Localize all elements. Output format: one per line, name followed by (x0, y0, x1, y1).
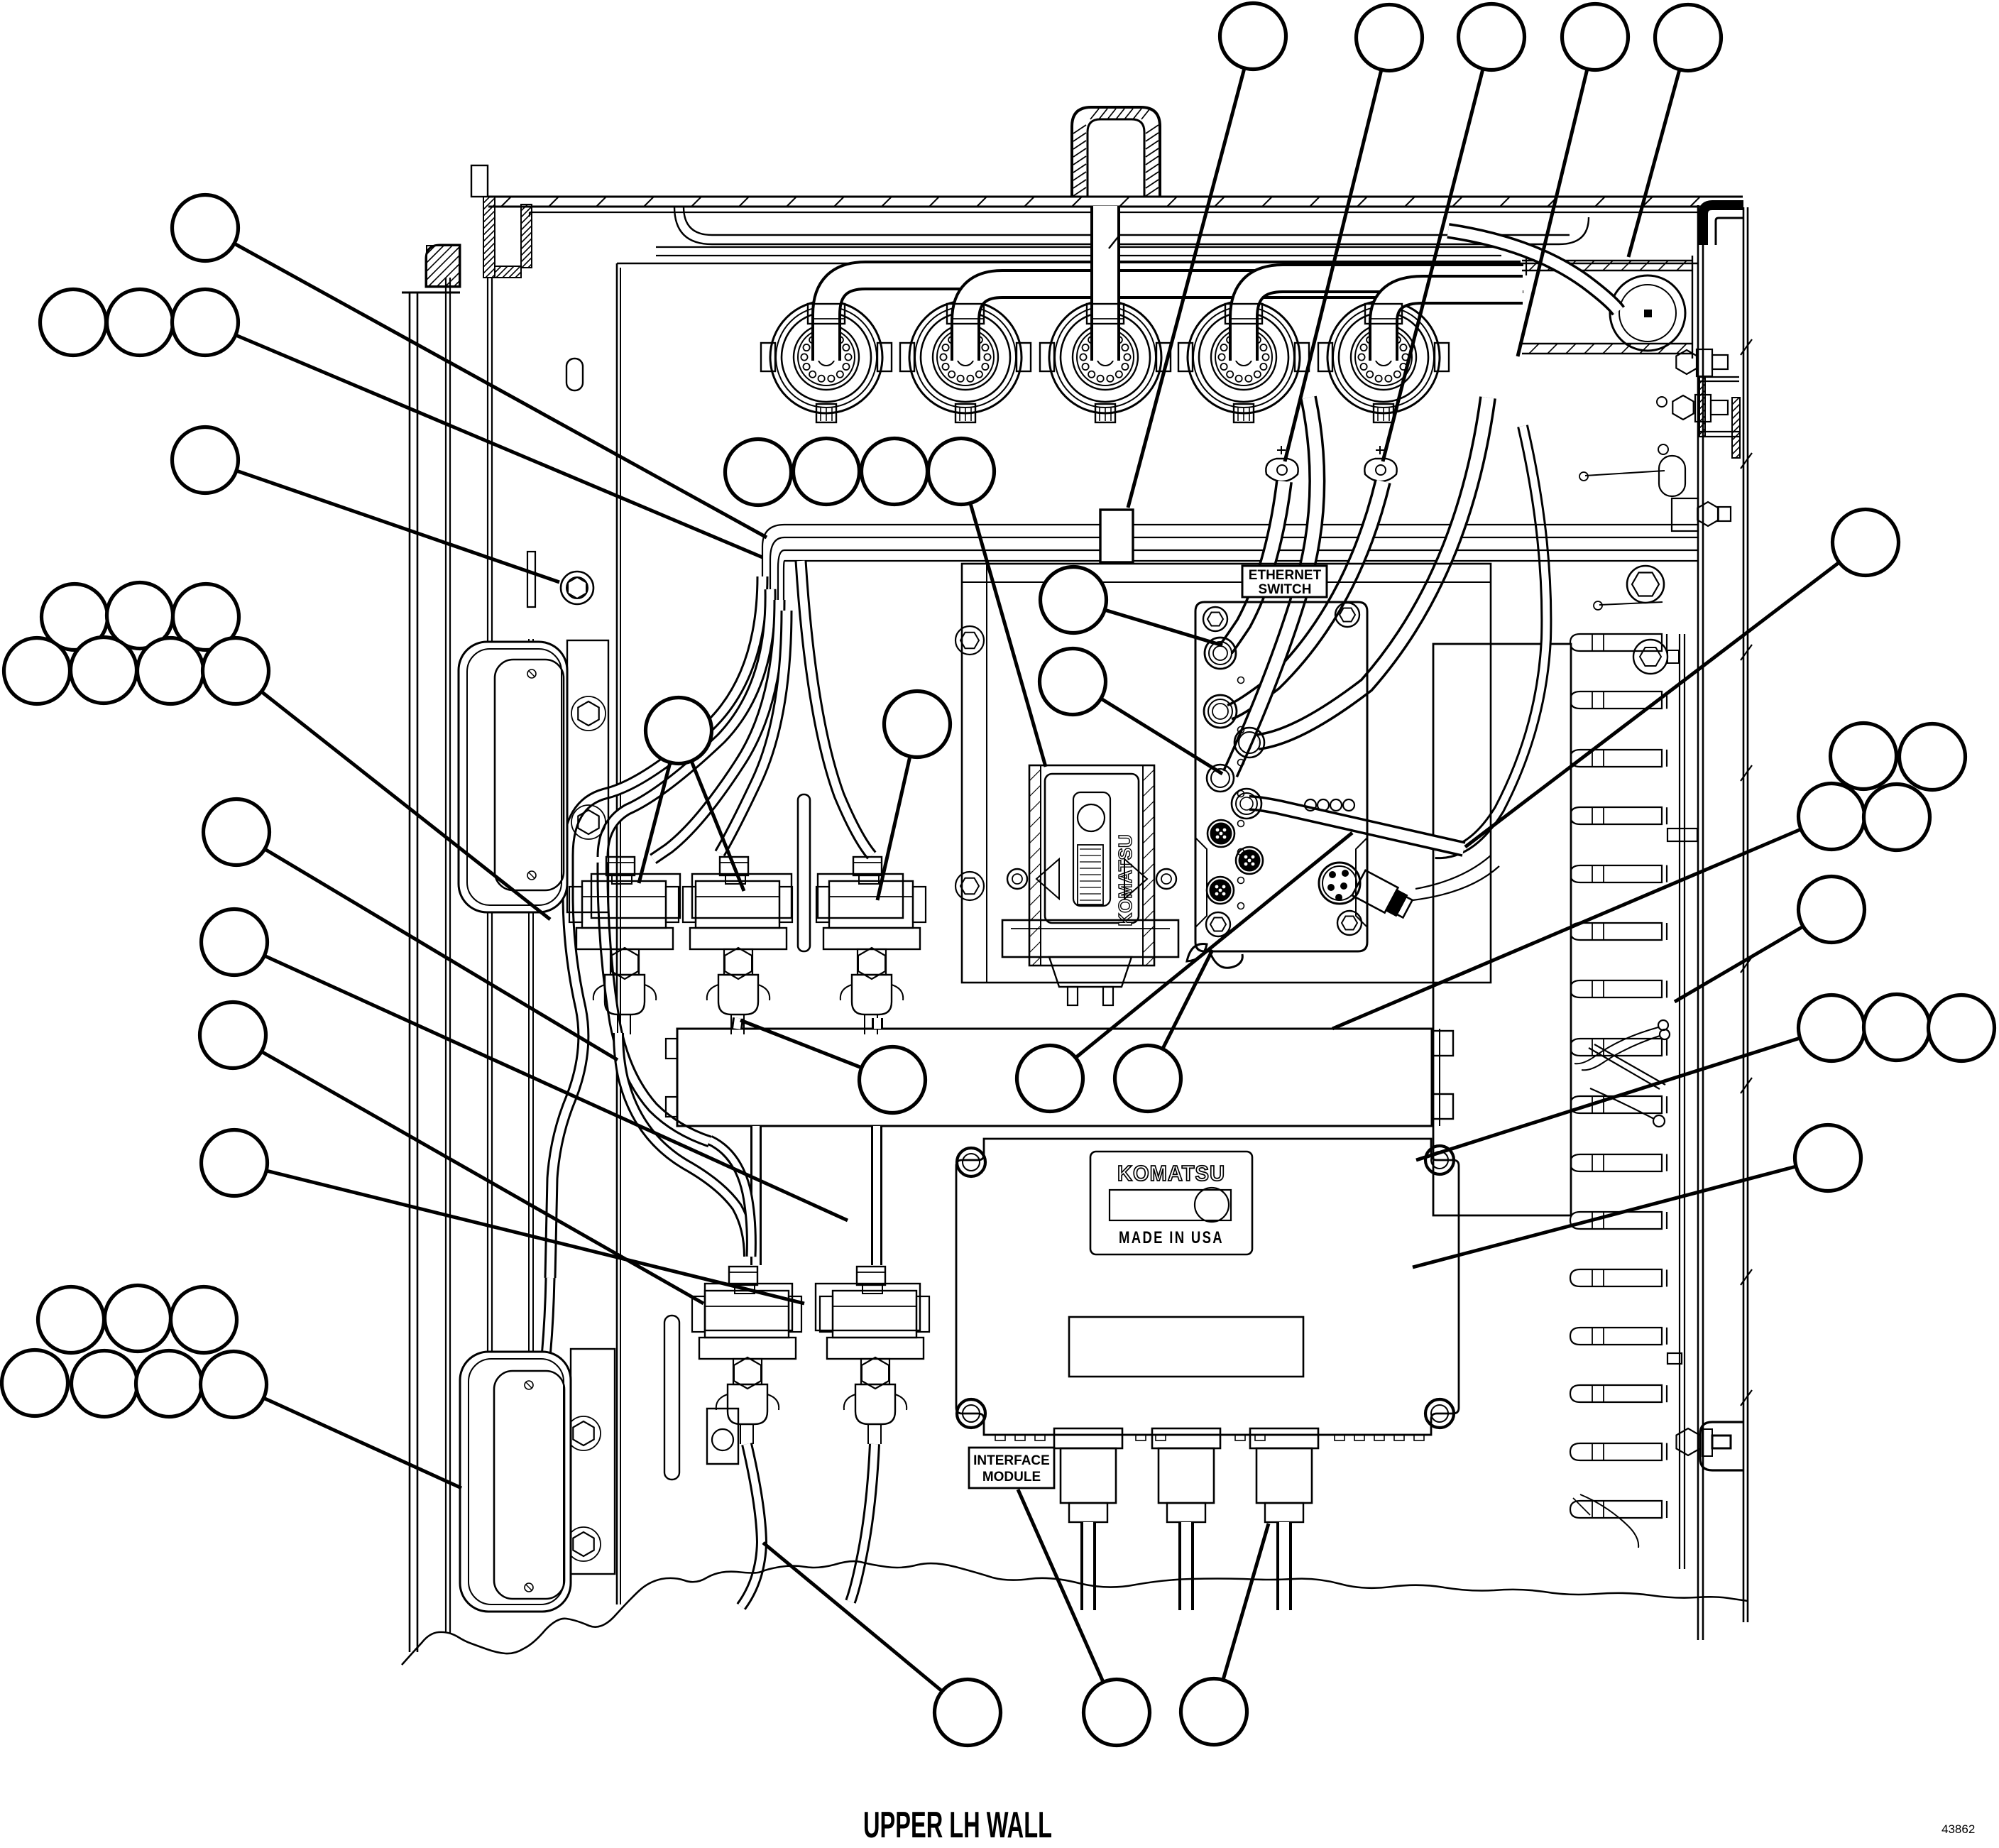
leader S3 (261, 1051, 703, 1303)
switch plate (1195, 602, 1367, 951)
leader V2 (877, 756, 910, 900)
lower access cover (460, 1349, 615, 1612)
leader Q3 (1223, 1524, 1269, 1680)
leader A3 (236, 471, 559, 582)
lower valve 2 (820, 1267, 929, 1444)
interface module box (956, 1139, 1459, 1435)
connector cable collars (808, 304, 1402, 324)
squiggle mark (1187, 944, 1207, 962)
lifting handle bracket (1072, 107, 1160, 197)
torn edge bottom (402, 1561, 1748, 1665)
panel bolt near left (527, 552, 593, 607)
leader S2 (264, 956, 848, 1220)
leader V1a (639, 762, 670, 883)
balloon A2b (107, 290, 173, 356)
balloon R8 (1864, 995, 1930, 1061)
balloon A1 (172, 195, 239, 261)
balloon R4 (1799, 784, 1865, 850)
leader T4 (1518, 69, 1587, 356)
blank cover plate over channel (1433, 644, 1571, 1215)
balloon U3 (173, 584, 239, 650)
left wall flange verticals (410, 278, 533, 1652)
komatsu controller device (1002, 765, 1178, 1005)
leader E2 (1101, 699, 1222, 774)
balloon L3 (171, 1287, 237, 1353)
leader T3 (1383, 69, 1483, 461)
leader B2 (1075, 833, 1352, 1058)
balloon B2 (1017, 1046, 1083, 1112)
harness bundle horizontal (762, 525, 1698, 611)
leader T1 (1128, 68, 1244, 508)
main backplate panel edge (617, 263, 1698, 1604)
balloon R5 (1864, 784, 1930, 851)
callout leader lines (234, 68, 1839, 1691)
balloon A2a (40, 290, 106, 356)
lower valve cables to tear (488, 1140, 875, 1607)
balloon U4 (4, 638, 70, 704)
module window rect (1069, 1317, 1303, 1377)
balloon T4 (1562, 4, 1628, 70)
svg-text:43862: 43862 (1942, 1822, 1975, 1836)
balloon R7 (1799, 995, 1865, 1061)
svg-text:KOMATSU: KOMATSU (1117, 1161, 1225, 1186)
svg-text:MADE IN USA: MADE IN USA (1119, 1228, 1224, 1247)
balloon Q2 (1084, 1680, 1150, 1746)
leader A2c (236, 335, 762, 557)
balloon M1 (725, 439, 792, 505)
leader A1 (234, 244, 767, 537)
wires exiting slots (1573, 1020, 1670, 1548)
balloon Q3 (1181, 1679, 1247, 1745)
balloon L2 (105, 1286, 171, 1352)
INTERFACE MODULE label (969, 1448, 1054, 1488)
upper valve 2 (683, 857, 792, 1034)
balloon S3 (200, 1002, 266, 1068)
svg-text:ETHERNET: ETHERNET (1249, 568, 1322, 583)
balloon R10 (1795, 1125, 1861, 1191)
balloon E1 (1041, 567, 1107, 633)
balloon T2 (1357, 5, 1423, 71)
balloon S4 (202, 1130, 268, 1196)
balloon M2 (794, 439, 860, 505)
balloon V2 (885, 691, 951, 758)
leader Q1 (763, 1543, 942, 1691)
svg-text:INTERFACE: INTERFACE (973, 1453, 1050, 1468)
balloon R9 (1929, 995, 1995, 1061)
second rail / angle (530, 207, 1589, 256)
balloon L7 (201, 1352, 267, 1418)
upper valve 1 (569, 857, 679, 1034)
balloon U7 (203, 638, 269, 704)
upper valve 3 (816, 857, 926, 1034)
small tabs on channel (1667, 829, 1697, 841)
balloon L1 (38, 1287, 104, 1353)
balloon R3 (1900, 724, 1966, 790)
leader R1 (1465, 562, 1839, 847)
slotted cable channel (1570, 634, 1685, 1569)
balloon T3 (1459, 4, 1525, 70)
balloon L6 (136, 1351, 202, 1417)
valve bracket plates (lower) (705, 1284, 792, 1330)
ETHERNET SWITCH label (1242, 566, 1327, 597)
ethernet switch backing panel (955, 564, 1491, 983)
top-left corner assembly (section) (402, 165, 532, 292)
balloon R1 (1833, 510, 1899, 576)
balloon T5 (1655, 5, 1721, 71)
valve bracket plates (upper) (591, 874, 680, 918)
upper access cover (459, 640, 608, 912)
leader U7 (261, 691, 550, 919)
lower valve 1 (692, 1267, 801, 1444)
lower valve bracket tab (707, 1409, 738, 1464)
connector cables (826, 206, 1523, 361)
balloon U1 (42, 584, 108, 650)
leader B3 (1163, 950, 1212, 1049)
balloon M4 (929, 439, 995, 505)
leader B1 (740, 1020, 862, 1068)
ethernet cables sweeping (1226, 398, 1488, 774)
right wall verticals (1698, 205, 1752, 1640)
balloon Q1 (935, 1680, 1001, 1746)
leader R7 (1416, 1038, 1800, 1160)
leader T5 (1628, 70, 1680, 257)
balloon M3 (862, 439, 928, 505)
balloon L5 (72, 1351, 138, 1417)
balloon B3 (1115, 1046, 1181, 1112)
balloon U2 (107, 583, 173, 649)
balloon B1 (860, 1047, 926, 1113)
module bottom connectors (984, 1428, 1431, 1610)
breather bracket and fan, top right (1448, 231, 1692, 359)
leader T2 (1285, 70, 1381, 461)
balloon L4 (2, 1350, 68, 1416)
leader S4 (266, 1171, 804, 1303)
top rail (hatched) (488, 197, 1743, 212)
panel slot holes (566, 359, 583, 390)
svg-text:SWITCH: SWITCH (1259, 582, 1312, 597)
cables crossing cover corner (1435, 426, 1546, 853)
balloon U5 (71, 638, 137, 704)
leader L7 (263, 1398, 461, 1488)
balloon A3 (172, 427, 239, 493)
balloon R6 (1799, 877, 1865, 943)
leader R10 (1413, 1166, 1796, 1267)
leader R6 (1675, 926, 1803, 1002)
svg-text:MODULE: MODULE (982, 1470, 1041, 1485)
balloon S1 (204, 799, 270, 865)
top-right corner bracket (1703, 205, 1743, 245)
5-pin round connector w/ plug (1319, 855, 1499, 922)
balloon A2c (172, 290, 239, 356)
ground studs (1266, 446, 1396, 481)
balloon E2 (1040, 649, 1106, 715)
right side bolts and fittings (1579, 349, 1743, 1470)
harness clamp (1100, 510, 1133, 562)
komatsu label plate (1090, 1152, 1252, 1254)
harness curves to valves (550, 561, 872, 1278)
balloon U6 (138, 638, 204, 704)
balloon R2 (1831, 723, 1897, 789)
balloon S2 (202, 909, 268, 975)
leader E1 (1105, 610, 1222, 645)
leader V1b (691, 761, 744, 891)
leader R4 (1332, 829, 1801, 1029)
svg-text:UPPER LH WALL: UPPER LH WALL (863, 1805, 1052, 1846)
right hatched edge strip (1732, 398, 1740, 458)
leader Q2 (1018, 1489, 1103, 1682)
balloon V1 (646, 698, 712, 764)
balloon T1 (1220, 4, 1286, 70)
manifold bar (666, 1029, 1453, 1126)
leader M4 (970, 503, 1046, 767)
leader S1 (265, 849, 618, 1060)
cables valve->bar / bar->lower valves (618, 1018, 877, 1265)
